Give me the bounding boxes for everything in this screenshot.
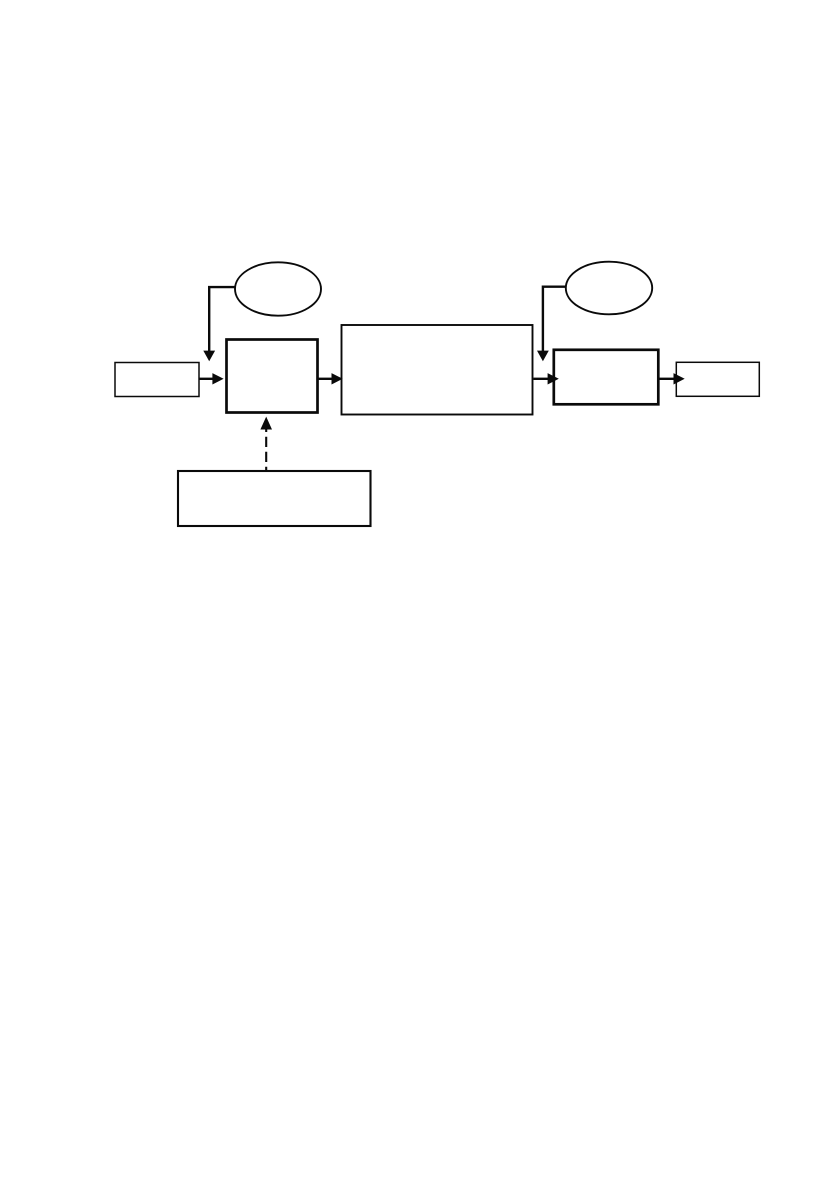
- arrow box1 to box2: [199, 373, 224, 384]
- dashed arrow from bottom box up to box2: [260, 417, 272, 471]
- box 5 (small output rectangle, right): [676, 362, 759, 396]
- ellipse left (oval callout): [235, 262, 321, 315]
- box 2 (thick-border process box): [227, 340, 318, 413]
- box 3 (large center rectangle): [342, 325, 533, 415]
- elbow arrow from right ellipse down to flow line: [537, 287, 566, 362]
- arrow box3 to box4: [534, 373, 559, 384]
- ellipse right (oval callout): [566, 262, 652, 315]
- elbow arrow from left ellipse down to flow line: [203, 287, 235, 361]
- box 4 (thick-border process box, right): [554, 350, 659, 405]
- box 1 (small input rectangle, left): [115, 363, 199, 397]
- arrow box2 to box3: [318, 373, 343, 384]
- arrow box4 to box5: [660, 373, 685, 384]
- bottom box (wide rectangle): [178, 471, 371, 526]
